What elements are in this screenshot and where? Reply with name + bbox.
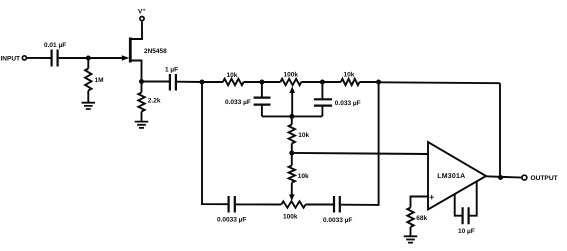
svg-text:2N5458: 2N5458 <box>144 48 167 55</box>
potentiometer R4 100k <box>280 79 301 85</box>
resistor R9 68k <box>407 208 413 228</box>
capacitor C1 0.01 uF <box>52 50 58 67</box>
svg-text:OUTPUT: OUTPUT <box>531 175 558 182</box>
wire C1 to gate <box>59 57 124 59</box>
svg-text:LM301A: LM301A <box>437 173 465 180</box>
svg-text:10k: 10k <box>344 72 355 79</box>
wire R3 to node B <box>244 81 262 83</box>
twin-T bottom rail <box>262 115 323 117</box>
wire feedback vertical <box>499 83 501 177</box>
capacitor C2 1 uF <box>170 74 176 91</box>
wire pot R8 to C6 <box>306 204 334 206</box>
right rail (C6 to node D) <box>341 82 379 205</box>
node C <box>320 80 325 85</box>
pot R8 wiper arrow (down) <box>289 194 295 201</box>
svg-text:1M: 1M <box>95 77 104 84</box>
node B <box>259 80 264 85</box>
op-amp U1 LM301A <box>428 142 486 210</box>
wire node B to pot R4 <box>262 81 281 83</box>
capacitor C3 bottom lead <box>261 105 263 117</box>
compensation capacitor C7 left lead <box>455 194 462 216</box>
svg-text:10k: 10k <box>298 132 309 139</box>
svg-text:2.2k: 2.2k <box>148 97 161 104</box>
input terminal <box>22 56 26 60</box>
svg-text:0.01 µF: 0.01 µF <box>44 42 66 49</box>
JFET Q1 source stub <box>130 61 141 82</box>
capacitor C4 bottom lead <box>321 106 323 117</box>
node F (R6/R7 junction) <box>289 151 294 156</box>
wire R5 to node D <box>360 81 379 83</box>
capacitor C7 10 uF plates <box>463 207 469 224</box>
svg-text:100k: 100k <box>283 213 298 220</box>
svg-text:10 µF: 10 µF <box>458 228 475 235</box>
node (gate/1M junction) <box>86 56 91 61</box>
wire node A to R3 <box>202 81 223 83</box>
JFET Q1 drain stub <box>130 21 142 39</box>
svg-text:INPUT: INPUT <box>1 55 21 62</box>
resistor R5 10k <box>341 79 360 85</box>
node (source/2.2k junction) <box>139 79 144 84</box>
resistor R2 2.2k <box>141 84 143 93</box>
node A <box>200 80 205 85</box>
svg-text:+: + <box>143 8 146 14</box>
resistor R6 10k <box>291 116 293 124</box>
node E (bottom rail junction) <box>289 114 294 119</box>
ground (1M) <box>82 103 96 109</box>
pot R4 wiper arrow <box>289 86 295 93</box>
wire node C to R5 <box>322 81 340 83</box>
wire source to C2 <box>142 81 170 83</box>
wire C2 to node A <box>177 81 202 83</box>
svg-text:68k: 68k <box>416 215 427 222</box>
resistor R1 1M <box>87 58 89 69</box>
JFET Q1 gate arrow <box>122 55 130 61</box>
capacitor C7 right lead <box>470 181 477 215</box>
capacitor C6 0.0033 uF plates <box>334 196 340 213</box>
ground (68k) <box>404 236 418 242</box>
svg-text:100k: 100k <box>284 72 299 79</box>
capacitor C3 0.033 uF plates <box>254 98 271 105</box>
svg-text:0.033 µF: 0.033 µF <box>335 100 361 107</box>
svg-text:10k: 10k <box>298 173 309 180</box>
wire node F to op-amp <box>292 153 428 154</box>
op-amp + input wire <box>411 197 429 208</box>
output terminal <box>522 175 527 180</box>
left rail (node A down) <box>202 82 228 204</box>
V+ terminal <box>140 17 144 21</box>
capacitor C5 0.0033 uF plates <box>229 196 235 213</box>
wire input to C1 <box>27 57 51 59</box>
svg-text:10k: 10k <box>227 72 238 79</box>
JFET Q1 2N5458 channel bar <box>129 38 132 63</box>
capacitor C4 0.033 uF (right) lead <box>321 82 323 99</box>
ground (2.2k) <box>135 122 149 128</box>
svg-text:1 µF: 1 µF <box>165 67 178 74</box>
svg-text:+: + <box>429 192 434 202</box>
wire node D to feedback corner <box>379 81 500 84</box>
op-amp output wire <box>486 176 522 177</box>
potentiometer R8 100k <box>281 201 305 207</box>
svg-text:0.0033 µF: 0.0033 µF <box>217 216 246 223</box>
node D <box>376 80 381 85</box>
svg-text:0.033 µF: 0.033 µF <box>225 99 251 106</box>
capacitor C3 0.033 uF (left) lead <box>261 82 263 97</box>
svg-text:0.0033 µF: 0.0033 µF <box>323 217 352 224</box>
wire pot to node C <box>301 81 322 83</box>
wire C5 to pot R8 <box>236 203 281 205</box>
capacitor C4 0.033 uF plates <box>314 99 332 105</box>
resistor R3 10k <box>223 79 244 85</box>
output node <box>498 175 503 180</box>
pot R4 wiper wire <box>291 92 293 117</box>
resistor R7 10k <box>291 153 293 166</box>
